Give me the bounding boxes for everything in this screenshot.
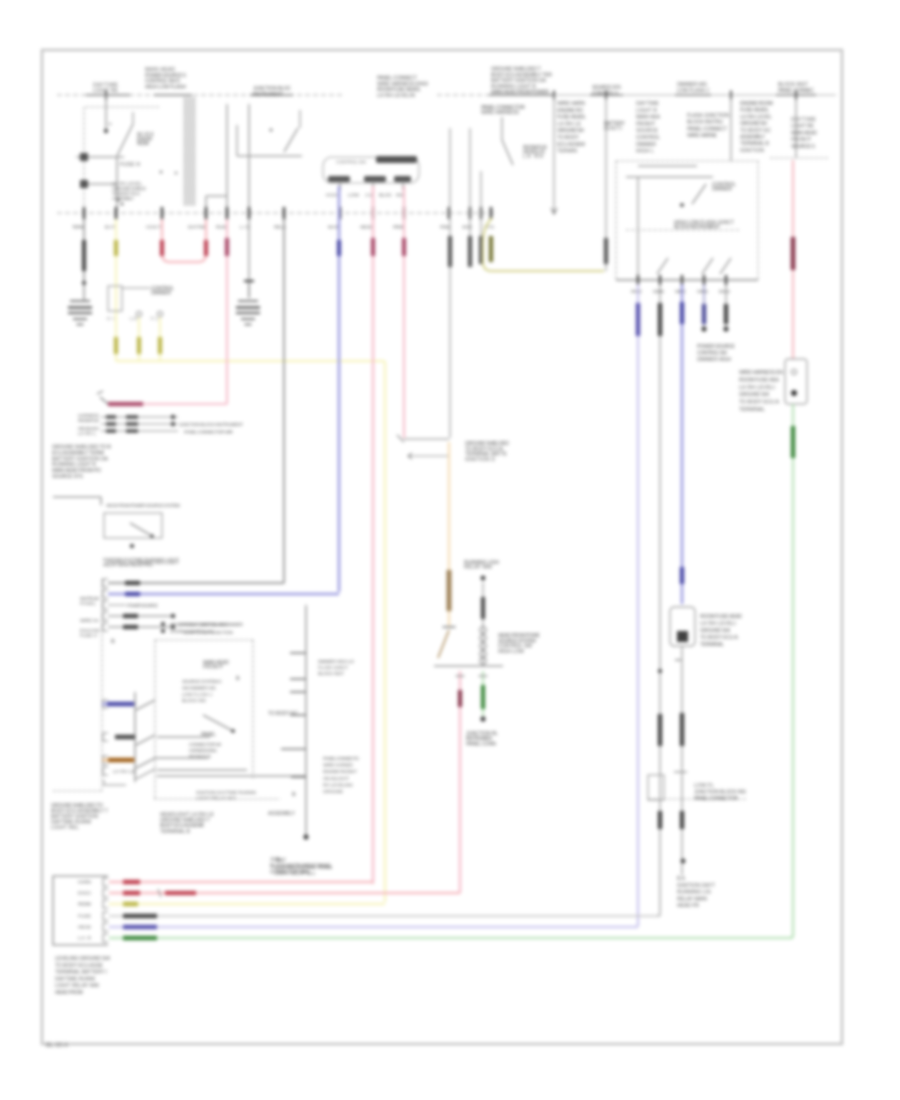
svg-text:CONTROL SW DIMMER HIGH LOW F: CONTROL SW DIMMER HIGH LOW F	[106, 560, 179, 565]
svg-text:JU: JU	[365, 193, 373, 199]
svg-text:POWER SOURCE: POWER SOURCE	[127, 603, 158, 608]
svg-text:ASSEMBLY: ASSEMBLY	[112, 196, 134, 201]
svg-text:TO BODY EC: TO BODY EC	[740, 128, 771, 134]
svg-text:TO BODY EC: TO BODY EC	[268, 711, 298, 717]
svg-text:LOW: LOW	[348, 193, 359, 199]
svg-text:WIRE HARNES: WIRE HARNES	[323, 763, 353, 768]
svg-text:HARNESS ENG: HARNESS ENG	[189, 748, 217, 753]
svg-text:SYSTEM CONTROL SW: SYSTEM CONTROL SW	[170, 629, 215, 634]
svg-text:HARN: HARN	[697, 289, 709, 295]
svg-text:PANEL CONNECT: PANEL CONNECT	[687, 126, 728, 132]
svg-text:LOW FLASH J: LOW FLASH J	[677, 88, 709, 94]
svg-text:WIRE HARNESS EN: WIRE HARNESS EN	[739, 370, 783, 376]
svg-text:IGNITI: IGNITI	[604, 126, 622, 132]
svg-text:SOURCE SYSTEM C: SOURCE SYSTEM C	[182, 679, 223, 684]
svg-text:DIMMER HIGH LO: DIMMER HIGH LO	[318, 659, 354, 664]
svg-text:GROUND SHI: GROUND SHI	[700, 628, 730, 634]
svg-text:TERMINAL: TERMINAL	[700, 642, 724, 648]
svg-text:WIRE HARNE: WIRE HARNE	[687, 133, 718, 139]
svg-text:LH RH LEVELIN: LH RH LEVELIN	[377, 93, 415, 99]
svg-text:LOW FL: LOW FL	[694, 783, 714, 789]
svg-text:FROM P: FROM P	[636, 121, 656, 127]
svg-text:CONN: CONN	[653, 289, 665, 295]
svg-text:DAYTIME: DAYTIME	[791, 117, 817, 123]
svg-text:RUN: RUN	[216, 225, 227, 231]
svg-text:PANEL: PANEL	[80, 601, 96, 606]
svg-text:RELAY MAI: RELAY MAI	[464, 565, 492, 571]
svg-text:HEAD: HEAD	[360, 225, 373, 231]
svg-text:RELAY MAIN: RELAY MAIN	[677, 896, 707, 902]
svg-text:IGNITION DAYT: IGNITION DAYT	[677, 883, 716, 889]
svg-text:DIMMER: DIMMER	[151, 290, 171, 296]
svg-text:PANE: PANE	[631, 289, 642, 295]
svg-text:PANEL CONNECTOR WIR: PANEL CONNECTOR WIR	[184, 430, 234, 435]
svg-text:TERMINAL: TERMINAL	[739, 407, 765, 413]
svg-text:ROOM FUSE HEAD: ROOM FUSE HEAD	[700, 614, 742, 620]
svg-text:ROOM: ROOM	[137, 141, 149, 147]
svg-text:JUN: JUN	[270, 857, 280, 863]
svg-text:TO BODY ECU ASSE: TO BODY ECU ASSE	[55, 963, 104, 969]
svg-text:GROUND: GROUND	[323, 789, 344, 794]
svg-text:PANEL CONNECTOR: PANEL CONNECTOR	[694, 796, 738, 802]
svg-text:RH LEVELING: RH LEVELING	[323, 782, 353, 787]
svg-text:LH RH LEVELI: LH RH LEVELI	[739, 385, 775, 391]
svg-text:RUNNING LIG: RUNNING LIG	[677, 890, 711, 896]
svg-text:LIGHT RELAY MAI: LIGHT RELAY MAI	[196, 796, 236, 801]
svg-text:SOU: SOU	[462, 225, 473, 231]
svg-text:LIG: LIG	[240, 225, 250, 231]
svg-text:LIGHT R: LIGHT R	[636, 108, 657, 114]
svg-text:HEAD FROM: HEAD FROM	[55, 990, 83, 996]
svg-text:FUSE: FUSE	[78, 914, 91, 920]
svg-text:ENGINE RO: ENGINE RO	[557, 108, 583, 114]
svg-text:CONNECTOR WIRE: CONNECTOR WIRE	[270, 870, 311, 876]
svg-text:MAIN HEAD FROM POWER: MAIN HEAD FROM POWER	[491, 90, 549, 96]
svg-text:DIMMER HIGH: DIMMER HIGH	[697, 357, 731, 363]
svg-text:HIGH LOW: HIGH LOW	[498, 649, 524, 655]
svg-text:LOW FLASH J: LOW FLASH J	[182, 692, 212, 697]
svg-text:HIGH L: HIGH L	[636, 149, 654, 155]
svg-text:FUSE H: FUSE H	[120, 162, 140, 168]
svg-text:LEVELING GROUND SHI: LEVELING GROUND SHI	[55, 956, 110, 962]
svg-text:IGNITION: IGNITION	[740, 148, 764, 154]
svg-text:ENGI: ENGI	[719, 289, 730, 295]
svg-text:GROUND SH: GROUND SH	[557, 128, 584, 134]
svg-text:FLASH JUNCTION: FLASH JUNCTION	[687, 113, 729, 119]
svg-text:JUNCTION BLOCK INSTRUMENT: JUNCTION BLOCK INSTRUMENT	[179, 422, 243, 427]
svg-text:LIGHT RELAY MAI: LIGHT RELAY MAI	[55, 983, 99, 989]
svg-text:DIMMER: DIMMER	[636, 142, 656, 148]
svg-text:B: B	[292, 792, 296, 798]
svg-text:IGNITION DAYTIME RUNNIN: IGNITION DAYTIME RUNNIN	[196, 790, 256, 795]
svg-text:TERM: TERM	[72, 225, 84, 231]
svg-text:DAYTIME: DAYTIME	[636, 101, 660, 107]
svg-text:BA: BA	[677, 876, 686, 882]
svg-text:LH RH LEVEL: LH RH LEVEL	[740, 114, 772, 120]
svg-text:LH RH L: LH RH L	[78, 431, 96, 436]
svg-text:HEAD FR: HEAD FR	[677, 903, 699, 909]
svg-text:IGNIT: IGNIT	[146, 225, 161, 231]
svg-text:POW: POW	[440, 225, 450, 231]
svg-text:ECU ASSEM: ECU ASSEM	[557, 142, 585, 148]
svg-text:FUSE HEADL: FUSE HEADL	[740, 108, 769, 114]
svg-text:RELA: RELA	[274, 225, 287, 231]
svg-text:TERMINAL B: TERMINAL B	[740, 141, 770, 147]
svg-text:CONTROL SW: CONTROL SW	[336, 160, 366, 166]
svg-text:ROOM FUS: ROOM FUS	[78, 418, 99, 423]
svg-text:TERMINAL BATTERY I: TERMINAL BATTERY I	[55, 970, 107, 976]
svg-text:DAYTIME RUNNI: DAYTIME RUNNI	[55, 976, 95, 982]
svg-text:INSTRUMENT: INSTRUMENT	[253, 92, 284, 98]
svg-text:LH RH LEVELI: LH RH LEVELI	[700, 621, 736, 627]
svg-text:TO BODY ECU A: TO BODY ECU A	[700, 635, 739, 641]
svg-text:BLOCK INSTRU: BLOCK INSTRU	[687, 120, 723, 126]
svg-text:HEAD FROM POWER SOURCE SYSTEM: HEAD FROM POWER SOURCE SYSTEM	[106, 503, 180, 508]
svg-text:SW DIMMER HIG: SW DIMMER HIG	[182, 685, 216, 690]
svg-text:BLOCK INST: BLOCK INST	[318, 671, 344, 676]
svg-text:FROM P: FROM P	[203, 665, 224, 671]
svg-text:ENGI: ENGI	[78, 891, 91, 897]
svg-text:GROUND SHI: GROUND SHI	[739, 392, 769, 398]
svg-text:ENGINE ROOM: ENGINE ROOM	[740, 101, 773, 107]
svg-text:TO BODY ECU A: TO BODY ECU A	[739, 400, 780, 406]
svg-text:LIGHT REL: LIGHT REL	[51, 825, 79, 831]
svg-text:IGNITION D: IGNITION D	[465, 457, 495, 463]
svg-text:LH RH LE: LH RH LE	[113, 769, 135, 774]
svg-text:BLOCK INSTRUMENT: BLOCK INSTRUMENT	[674, 225, 721, 231]
svg-text:HIGH LOW FLASH: HIGH LOW FLASH	[145, 84, 186, 90]
svg-text:SOURCE SYS: SOURCE SYS	[52, 474, 84, 480]
svg-text:CONNECTOR WI: CONNECTOR WI	[189, 742, 221, 747]
svg-text:ENGINE ROOM F: ENGINE ROOM F	[323, 769, 357, 774]
svg-text:MAIN HEA: MAIN HEA	[636, 115, 661, 121]
svg-text:SOURCE: SOURCE	[636, 128, 659, 134]
svg-text:MAIN HEAD: MAIN HEAD	[791, 130, 817, 136]
svg-text:TO BODY: TO BODY	[557, 135, 580, 141]
svg-text:INS: INS	[396, 193, 404, 199]
svg-text:CONTROL: CONTROL	[636, 135, 660, 141]
svg-text:FUSE H: FUSE H	[80, 633, 97, 638]
svg-text:BLOCK INSTRUMENT PANEL: BLOCK INSTRUMENT PANEL	[270, 863, 332, 869]
svg-text:ROOM: ROOM	[78, 902, 91, 908]
svg-text:TERMIN: TERMIN	[557, 149, 577, 155]
svg-text:BAT: BAT	[105, 225, 115, 231]
svg-text:SOURCE S: SOURCE S	[791, 144, 816, 150]
svg-text:B: B	[111, 639, 115, 645]
svg-text:HEAD: HEAD	[78, 925, 92, 931]
svg-text:DIMMER: DIMMER	[712, 187, 732, 193]
svg-text:PANEL CONN: PANEL CONN	[466, 741, 496, 747]
svg-text:BLOC: BLOC	[379, 193, 393, 199]
svg-text:ASSEMBLY: ASSEMBLY	[268, 811, 296, 817]
svg-text:CONTROL SW: CONTROL SW	[697, 351, 727, 357]
svg-text:WIRE HARN: WIRE HARN	[557, 101, 585, 107]
svg-text:DAYTIM: DAYTIM	[188, 225, 205, 231]
svg-text:LH R: LH R	[78, 936, 92, 942]
svg-text:LH RH: LH RH	[523, 154, 543, 160]
svg-text:FL: FL	[151, 316, 158, 321]
svg-text:HEAD FROM POWER SOURCE: HEAD FROM POWER SOURCE	[170, 622, 228, 627]
svg-text:HARN: HARN	[78, 880, 92, 886]
svg-text:GROUND SH: GROUND SH	[740, 121, 767, 127]
svg-text:JUNCTION BLOCK INS: JUNCTION BLOCK INS	[694, 789, 747, 795]
svg-text:PANEL CONNECTO: PANEL CONNECTO	[323, 756, 359, 761]
svg-text:ASSEMBLY: ASSEMBLY	[740, 135, 766, 141]
svg-text:TERMINAL B: TERMINAL B	[160, 829, 191, 835]
svg-text:LO: LO	[130, 316, 137, 321]
svg-text:FROM P: FROM P	[791, 137, 812, 143]
svg-text:HEADLIGHT: HEADLIGHT	[323, 776, 349, 781]
svg-text:LH RH LE: LH RH LE	[557, 121, 582, 127]
svg-text:HIGH: HIGH	[326, 193, 340, 199]
svg-text:BLOCK INS: BLOCK INS	[182, 698, 206, 703]
svg-text:FUSE HEADL: FUSE HEADL	[557, 115, 586, 121]
svg-text:PANEL: PANEL	[201, 732, 216, 738]
svg-text:BL-3S A: BL-3S A	[46, 1043, 68, 1049]
svg-text:ROOM FUSE HEA: ROOM FUSE HEA	[739, 377, 780, 383]
svg-text:POWER SOURCE: POWER SOURCE	[697, 344, 736, 350]
svg-text:WIRE: WIRE	[675, 289, 686, 295]
svg-text:WIRE HA: WIRE HA	[80, 618, 100, 623]
svg-text:WIRE HARNESS: WIRE HARNESS	[481, 110, 520, 116]
svg-text:FLASH JUNCT: FLASH JUNCT	[318, 665, 348, 670]
svg-text:LIGHT RE: LIGHT RE	[791, 124, 815, 130]
svg-text:B: B	[236, 676, 240, 682]
